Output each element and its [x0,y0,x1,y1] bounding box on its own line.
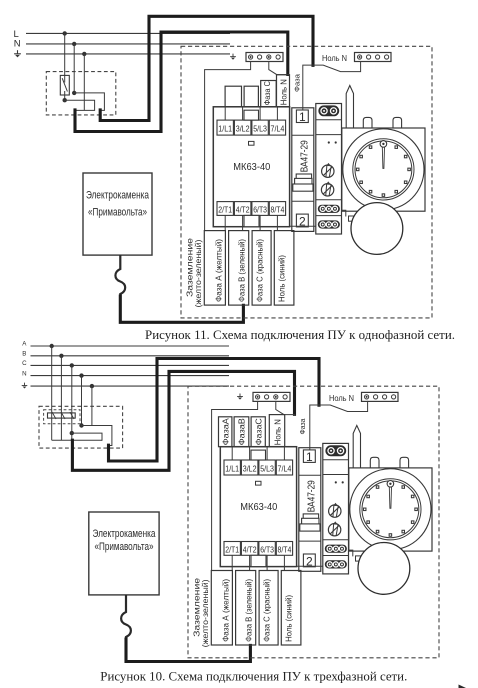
cable core Фаза С (красный) (bottom) [259,571,278,646]
thick heater supply wire (bottom) [126,639,250,662]
contactor input column (jumper) [225,86,241,107]
thermostat dial outer circle (bottom) [350,469,431,550]
svg-text:5/L3: 5/L3 [260,464,274,474]
electric sauna heater Электрокаменка box (bottom) [89,512,159,595]
cable core Фаза В (зеленый) (top) [229,231,249,306]
junction dot tap 2 (bottom) [59,354,63,358]
svg-text:Фаза С (красный): Фаза С (красный) [263,579,272,642]
breaker terminal 2 (bottom) [303,554,315,568]
wire tap B (bottom) [60,356,62,440]
contactor terminal 7/L4 (bottom) [276,460,292,475]
contactor terminal 1/L1 (bottom) [224,460,240,475]
junction dot PE tap (top) [82,52,86,56]
svg-text:ФазаВ: ФазаВ [238,418,247,445]
wire N dogleg (bottom) [82,426,112,446]
module adjustment screw 1 (bottom) [329,503,341,518]
junction dot tap 1 (bottom) [50,344,54,348]
contactor input terminal stubs (top) [225,107,277,231]
three-pole breaker switch symbol (bottom) [48,412,76,419]
wire phase: breaker input node to strip X2 hole1 (bottom) [310,401,368,451]
svg-text:Электрокаменка: Электрокаменка [93,528,157,540]
contactor terminal 8/T4 (top) [269,202,285,216]
cable core Фаза С (красный) (top) [252,231,271,306]
svg-text:МК63-40: МК63-40 [233,161,270,173]
module terminal block B (top) [318,221,339,228]
svg-text:Фаза А (желтый): Фаза А (желтый) [221,579,230,642]
module adjustment screw 2 (top) [321,181,333,196]
breaker toggle lever (bottom) [300,514,320,531]
module terminal block B (bottom) [325,561,346,568]
thermostat mounting tab right (bottom) [400,457,409,468]
contactor terminal 4/T2 (bottom) [241,542,258,556]
svg-text:Фаза А (желтый): Фаза А (желтый) [214,239,223,302]
svg-text:4/T2: 4/T2 [236,204,250,214]
contactor terminal 3/L2 (top) [234,120,251,135]
thermostat bottom stem (top) [377,205,387,216]
breaker terminal 2 (top) [296,214,308,228]
contactor KM1 МК63-40 body (bottom) [220,447,296,567]
svg-text:ВА47-29: ВА47-29 [307,480,318,512]
heater cable with slack loop (bottom) [121,595,131,640]
wire breaker output to node (top) [64,91,66,100]
svg-text:ВА47-29: ВА47-29 [300,140,311,172]
node A supply line (bottom) [22,341,229,348]
svg-text:Фаза: Фаза [292,73,301,92]
wire breaker output to timer module (bottom) [297,565,323,567]
sensor bulb circle (bottom) [358,543,410,595]
contactor terminal 4/T2 (top) [234,202,251,216]
capillary tube link (bottom) [349,550,353,556]
contactor indicator window (top) [249,141,255,145]
cable core Ноль (синий) (bottom) [281,571,301,646]
thermostat knob (top) [380,141,387,148]
contactor input column Ноль N [269,415,284,447]
svg-text:B: B [22,351,26,358]
terminal strip X1 (bottom) [253,392,290,401]
svg-text:3/L2: 3/L2 [236,124,250,134]
svg-text:N: N [22,370,26,377]
svg-text:4/T2: 4/T2 [243,544,257,554]
thermostat dial tick marks (bottom) [363,486,417,536]
ground symbol PE line (top) [14,50,21,57]
contactor KM1 МК63-40 body (top) [213,107,289,227]
temperature sensor probe (bottom) [353,425,360,468]
contactor jumper box bottom (top) [244,215,259,226]
svg-text:7/L4: 7/L4 [278,464,292,474]
node PE supply line (top) [26,53,230,55]
svg-text:(желто-зеленый): (желто-зеленый) [194,239,203,307]
junction dot tap 3 (bottom) [70,363,74,367]
contactor terminal 6/T3 (top) [252,202,268,216]
junction dot tap 4 (bottom) [79,373,83,377]
svg-text:7/L4: 7/L4 [271,124,285,134]
svg-text:(желто-зеленый): (желто-зеленый) [201,579,210,647]
wire N tap (top) [73,44,75,93]
thermostat dial inner rings (top) [353,139,414,200]
contactor input column ФазаВ [234,417,249,447]
wire phase dogleg (top) [65,100,95,110]
contactor input column ФазаС [251,417,265,447]
thermostat dial tick marks (top) [356,146,410,196]
module indicator dots (bottom) [335,481,344,483]
wire tap A (bottom) [51,346,53,440]
page corner arrow marker [459,685,467,688]
svg-text:6/T3: 6/T3 [260,544,274,554]
svg-text:ФазаА: ФазаА [222,417,231,445]
module terminal block A (bottom) [325,545,346,552]
ground symbol PE line (bottom) [22,383,28,389]
module indicator dots (top) [328,141,337,143]
external breaker dashed box (bottom) [39,406,123,448]
contactor terminal 2/T1 (top) [217,202,233,216]
ground symbol at terminal strip X1 (top) [230,54,236,60]
junction dot tap 5 (bottom) [90,384,94,388]
contactor terminal 6/T3 (bottom) [259,542,275,556]
svg-text:N: N [14,39,21,50]
control panel PU dashed enclosure (bottom) [188,386,439,658]
contactor terminal 5/L3 (top) [252,120,268,135]
capillary tube link (top) [342,210,346,216]
cable core Фаза В (зеленый) (bottom) [236,571,256,646]
thermostat knob pointer needle (top) [382,147,384,168]
contactor terminal 7/L4 (top) [269,120,285,135]
svg-text:Ноль N: Ноль N [322,54,347,63]
node B supply line (bottom) [22,351,229,358]
junction dot L tap (top) [62,31,66,35]
node C supply line (bottom) [22,360,229,367]
contactor terminal 1/L1 (top) [217,120,233,135]
svg-text:3/L2: 3/L2 [243,464,257,474]
cable core Ноль (синий) (top) [274,231,294,306]
svg-text:Ноль N: Ноль N [279,79,288,105]
svg-text:Фаза: Фаза [298,418,307,435]
wire tap C (bottom) [71,365,73,440]
thermostat bottom stem (bottom) [384,545,394,556]
svg-text:Ноль N: Ноль N [273,419,282,445]
electric sauna heater Электрокаменка box (top) [83,173,152,255]
svg-text:Фаза С: Фаза С [263,81,272,105]
svg-text:1/L1: 1/L1 [218,124,232,134]
svg-text:Рисунок 10. Схема подключения: Рисунок 10. Схема подключения ПУ к трехф… [100,669,407,684]
wire N: strip X1 hole3 to contactor 7/L4 column (bottom) [276,401,295,414]
temperature sensor probe (top) [346,86,353,129]
svg-text:Фаза В (зеленый): Фаза В (зеленый) [238,239,247,302]
contactor indicator window (bottom) [256,481,262,485]
thermostat dial inner rings (bottom) [360,479,421,540]
circuit breaker QF switch symbol (top) [60,75,69,95]
control panel PU dashed enclosure (top) [181,46,432,318]
wire PE tap (top) [83,54,85,111]
svg-text:Электрокаменка: Электрокаменка [86,190,150,202]
wire breaker output to timer module (top) [290,225,316,227]
contactor input column ФазаА [219,417,232,447]
contactor terminal 5/L3 (bottom) [259,460,275,475]
ground symbol at terminal strip X1 (bottom) [237,394,243,400]
wire L tap into breaker (top) [64,33,66,82]
timer relay module body (top) [316,104,342,235]
terminal strip X2 Ноль N (top) [355,53,392,62]
breaker pole dashed sub-box (bottom) [44,410,80,424]
svg-text:Ноль N: Ноль N [329,394,354,403]
contactor jumper box bottom (bottom) [251,555,266,566]
junction dot neutral node (top) [72,91,76,95]
wire common bar (bottom) [52,439,102,441]
terminal strip X2 Ноль N (bottom) [362,392,399,401]
wire C dogleg (bottom) [72,433,102,440]
thick neutral cable loop (bottom) [72,371,294,470]
wire tap N (bottom) [81,376,83,426]
breaker terminal 1 (top) [296,110,308,124]
junction dot N tap (top) [72,42,76,46]
sensor bulb circle (top) [351,203,403,255]
svg-text:8/T4: 8/T4 [278,544,292,554]
wire tap PE (bottom) [91,386,93,425]
capillary tube fitting (bottom) [356,556,361,561]
circuit breaker QF1 ВА47-29 body (top) [292,108,314,232]
wire PE: strip X1 hole1 to earth rail (top) [205,62,251,231]
contactor input column Фаза С [261,81,277,107]
wire PE: strip X1 hole1 to earth rail (bottom) [212,401,258,570]
breaker toggle lever (top) [293,174,313,191]
svg-text:C: C [22,360,27,367]
node PE supply line (bottom) [31,385,230,387]
thick phase cable loop (top) [100,16,313,120]
thermostat mounting tab left (bottom) [370,457,379,468]
svg-text:8/T4: 8/T4 [271,204,285,214]
svg-text:ФазаС: ФазаС [254,418,263,445]
contactor input column Ноль N [277,75,290,107]
svg-text:5/L3: 5/L3 [253,124,267,134]
wire neutral dogleg (top) [74,93,104,111]
capillary tube fitting (top) [349,216,354,221]
contactor input column (jumper) [244,86,258,107]
junction dot C node (bottom) [70,431,74,435]
svg-text:МК63-40: МК63-40 [240,501,277,513]
svg-text:Ноль (синий): Ноль (синий) [277,255,286,302]
svg-text:Ноль (синий): Ноль (синий) [284,595,293,642]
contactor jumper box top (top) [244,110,259,120]
node N supply line (bottom) [22,370,229,377]
thermostat dial outer circle (top) [343,129,424,210]
cable core Фаза А (желтый) (top) [204,231,225,306]
thermostat mounting tab right (top) [393,117,402,128]
wire phase: breaker input node to strip X2 hole1 (top) [303,62,361,112]
thermostat mounting tab left (top) [363,117,372,128]
contactor jumper box top (bottom) [251,450,266,460]
contactor terminal 3/L2 (bottom) [241,460,258,475]
svg-text:6/T3: 6/T3 [253,204,267,214]
svg-text:1: 1 [299,110,306,124]
contactor terminal 8/T4 (bottom) [276,542,292,556]
svg-text:«Примавольта»: «Примавольта» [95,541,154,553]
module adjustment screw 1 (top) [322,163,334,178]
svg-text:1/L1: 1/L1 [225,464,239,474]
wire N: strip X1 hole3 to contactor 7/L4 column (top) [269,62,288,75]
junction dot N node (bottom) [79,423,83,427]
module adjustment screw 2 (bottom) [328,521,340,536]
thick heater supply wire (top) [120,296,243,322]
contactor terminal 2/T1 (bottom) [224,542,240,556]
svg-text:Рисунок 11. Схема подключения: Рисунок 11. Схема подключения ПУ к одноф… [145,327,455,342]
junction dot phase node (top) [62,98,66,102]
timer relay module body (bottom) [323,443,349,574]
module terminal block A (top) [318,205,339,212]
thermostat body (bottom) [349,468,432,551]
thick neutral cable loop (top) [75,32,288,132]
svg-text:1: 1 [306,450,313,464]
svg-text:Фаза В (зеленый): Фаза В (зеленый) [245,579,254,642]
circuit breaker QF1 ВА47-29 body (bottom) [299,448,321,572]
cable core Фаза А (желтый) (bottom) [211,571,232,646]
thermostat knob pointer needle (bottom) [389,487,391,508]
thermostat body (top) [342,128,425,211]
breaker terminal 1 (bottom) [303,450,315,464]
svg-text:2/T1: 2/T1 [218,204,232,214]
node L supply line (top) [14,29,230,40]
heater cable with slack loop (top) [115,255,125,297]
earth conductor label Заземление желто-зеленый (top) [186,237,203,307]
module top terminal pair (bottom) [326,446,346,456]
svg-text:2/T1: 2/T1 [225,544,239,554]
contactor input terminal stubs (bottom) [232,447,284,571]
terminal strip X1 (top) [246,53,283,62]
svg-text:Фаза С (красный): Фаза С (красный) [256,239,265,302]
earth conductor label Заземление желто-зеленый (bottom) [193,577,210,647]
thick phase cable loop (bottom) [109,359,320,462]
module top terminal pair (top) [319,106,339,116]
thermostat knob (bottom) [387,481,394,488]
svg-text:«Примавольта»: «Примавольта» [88,206,147,218]
external breaker dashed box (top) [46,72,116,115]
node N supply line (top) [14,39,230,50]
